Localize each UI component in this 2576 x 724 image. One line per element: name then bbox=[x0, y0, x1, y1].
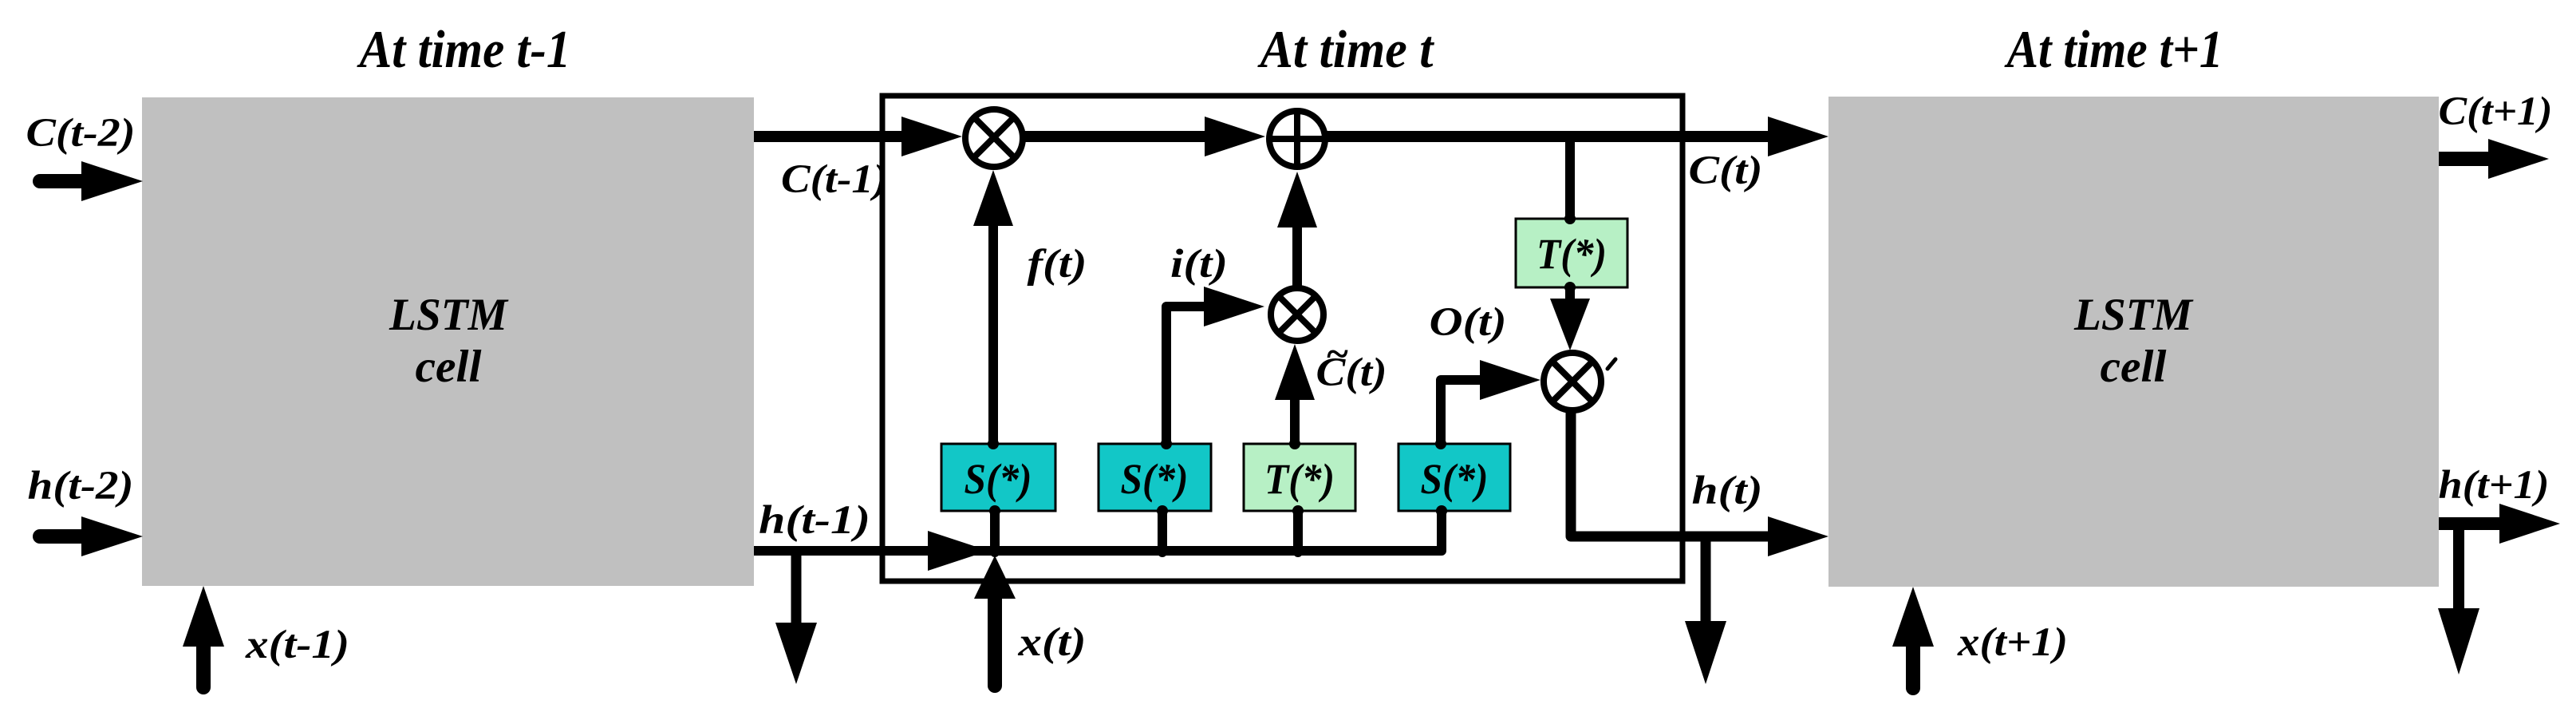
S gate 2 bbox=[1099, 444, 1211, 511]
svg-text:C(t): C(t) bbox=[1689, 148, 1763, 193]
svg-text:C(t-1): C(t-1) bbox=[781, 157, 888, 202]
arrow x(t) input bbox=[988, 595, 1002, 686]
multiplier X2 bbox=[1271, 288, 1324, 341]
arrow h(t+1) output bbox=[2439, 517, 2504, 530]
S gate 4 bbox=[1398, 444, 1510, 511]
arrowhead into mult1 bbox=[901, 117, 962, 156]
arrow C(t-2) input bbox=[40, 174, 86, 188]
h(t+1) down branch bbox=[2453, 524, 2464, 611]
T gate 1 bbox=[1244, 444, 1355, 511]
adder plus circle bbox=[1269, 111, 1325, 167]
wire i(t) from S2 to mult2 bbox=[1166, 307, 1209, 444]
wire T gate to mult3 bbox=[1565, 287, 1575, 302]
svg-text:LSTM: LSTM bbox=[2073, 290, 2194, 340]
svg-text:h(t+1): h(t+1) bbox=[2439, 463, 2550, 508]
T gate upper bbox=[1516, 219, 1627, 287]
h(t-1) down branch bbox=[791, 551, 802, 626]
svg-text:x(t-1): x(t-1) bbox=[245, 623, 349, 667]
svg-text:At time t: At time t bbox=[1257, 20, 1435, 79]
arrowhead C(t) into next cell bbox=[1768, 117, 1828, 156]
multiplier X1 bbox=[965, 109, 1023, 167]
arrow C(t+1) output bbox=[2439, 152, 2493, 166]
prime mark bbox=[1608, 359, 1615, 369]
svg-text:h(t): h(t) bbox=[1692, 469, 1763, 513]
stub S2 bbox=[1158, 511, 1167, 552]
arrowhead h(t-1) bbox=[928, 531, 988, 571]
LSTM cell block t+1 bbox=[1828, 97, 2439, 587]
svg-text:h(t-1): h(t-1) bbox=[759, 498, 870, 543]
wire adder to C(t) output bbox=[1327, 131, 1773, 142]
arrow x(t+1) input bbox=[1906, 643, 1920, 688]
wire C(t-1) trunk into cell bbox=[754, 131, 909, 142]
wire h(t) from mult3 to output bbox=[1571, 410, 1773, 536]
svg-text:S(*): S(*) bbox=[1121, 455, 1189, 503]
svg-text:h(t-2): h(t-2) bbox=[28, 464, 134, 508]
wire mult2 to adder bbox=[1292, 226, 1302, 286]
S gate 1 bbox=[941, 444, 1055, 511]
svg-text:S(*): S(*) bbox=[1421, 455, 1489, 503]
arrow h(t-2) input bbox=[40, 529, 86, 544]
wire f(t) from S1 to mult1 bbox=[988, 224, 998, 444]
svg-text:S(*): S(*) bbox=[965, 455, 1032, 503]
svg-text:f(t): f(t) bbox=[1028, 242, 1087, 287]
svg-text:At time t-1: At time t-1 bbox=[357, 20, 571, 79]
svg-text:At time t+1: At time t+1 bbox=[2004, 20, 2223, 79]
LSTM cell block t-1 bbox=[142, 97, 754, 586]
wire h(t-1) trunk bbox=[754, 511, 1442, 551]
multiplier X3 bbox=[1544, 353, 1601, 410]
svg-text:T(*): T(*) bbox=[1264, 455, 1335, 503]
arrowhead into adder bbox=[1205, 117, 1265, 156]
svg-text:x(t+1): x(t+1) bbox=[1957, 620, 2068, 665]
svg-text:cell: cell bbox=[416, 342, 482, 392]
svg-text:LSTM: LSTM bbox=[389, 290, 509, 340]
wire mult1 to adder bbox=[1024, 131, 1214, 142]
svg-text:~: ~ bbox=[1325, 332, 1348, 377]
svg-text:C(t+1): C(t+1) bbox=[2439, 89, 2553, 134]
svg-text:cell: cell bbox=[2101, 342, 2167, 392]
svg-text:i(t): i(t) bbox=[1170, 242, 1228, 287]
svg-text:O(t): O(t) bbox=[1430, 300, 1507, 345]
stub S1 bbox=[990, 511, 1000, 552]
arrow x(t-1) input bbox=[196, 643, 211, 687]
wire O(t) from S4 to mult3 bbox=[1441, 380, 1485, 443]
wire Ctilde from T1 to mult2 bbox=[1290, 398, 1300, 444]
stub T1 bbox=[1293, 511, 1303, 552]
svg-text:C(t-2): C(t-2) bbox=[26, 111, 136, 156]
svg-text:x(t): x(t) bbox=[1017, 620, 1086, 665]
LSTM cell box at time t bbox=[882, 96, 1682, 581]
svg-text:T(*): T(*) bbox=[1537, 230, 1607, 278]
h(t) down branch bbox=[1701, 536, 1711, 624]
wire drop to T gate bbox=[1565, 136, 1575, 219]
